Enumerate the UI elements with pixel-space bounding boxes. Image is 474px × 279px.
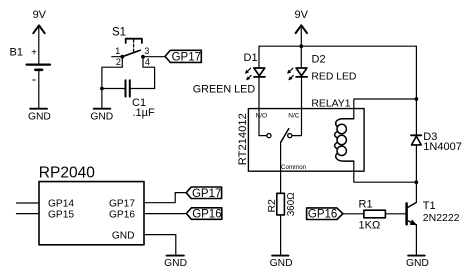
global label GP17 (RP2040) [186,187,221,200]
relay N/C contact [288,109,302,138]
wire 9V rail [259,45,416,47]
global label GP16 (RP2040) [186,208,221,221]
svg-text:Common: Common [281,164,307,171]
LED D2 [288,54,326,81]
wire common to R2 [280,143,282,194]
wire GP16 pin to flag [144,213,186,215]
svg-text:2: 2 [116,57,121,67]
svg-text:D2: D2 [312,54,326,66]
relay coil pin up [354,99,417,119]
wire R1 to base [385,213,405,215]
S1 arm [122,50,140,57]
svg-text:GND: GND [270,258,293,269]
wire battery to ground [38,71,40,108]
svg-text:R1: R1 [359,199,373,211]
wire D1 to relay N/O [258,78,260,109]
relay coil [335,119,354,161]
svg-text:360Ω: 360Ω [286,192,297,216]
svg-text:D1: D1 [244,52,258,64]
wire 9V rail down right side [415,46,417,135]
RP2040 module [17,165,145,245]
wire pin4 down-right [143,57,155,89]
svg-text:GP16: GP16 [192,209,221,221]
transistor T1 [407,200,460,225]
wire GND pin down [144,235,176,255]
svg-text:.1µF: .1µF [133,107,156,119]
svg-text:S1: S1 [112,27,126,39]
ground (battery) [28,109,51,123]
svg-text:GND: GND [112,230,135,241]
svg-text:2N2222: 2N2222 [423,212,460,224]
node coil top [415,97,419,101]
S1 linkage dashed [133,40,135,54]
wire D3 to collector node [415,145,417,203]
global label GP17 (switch) [165,50,201,63]
svg-text:3: 3 [144,46,149,56]
svg-text:+: + [31,48,37,59]
relay common arm [281,129,289,143]
wire C1 right plate to pin4 [130,88,155,90]
relay coil pin down [354,161,417,182]
ground (R2) [270,256,293,269]
wire pin3 to GP17 flag [143,56,165,58]
svg-text:GP17: GP17 [109,199,135,210]
node 9V rail junction [299,44,303,48]
svg-text:1: 1 [115,46,120,56]
ground (T1) [406,256,429,269]
svg-text:GND: GND [406,258,429,269]
wire D2 to relay N/C [301,78,303,109]
svg-text:GP16: GP16 [308,209,337,221]
svg-text:4: 4 [145,57,150,67]
wire rail to D1 [258,46,260,68]
wire pin2 down-left [102,57,122,89]
power flag 9V (battery) [33,9,47,33]
relay N/O contact [259,109,271,138]
svg-text:GP16: GP16 [109,209,135,220]
global label GP16 (base drive) [307,208,343,221]
pin GP14 stub [17,202,40,204]
svg-text:T1: T1 [423,200,436,212]
battery B1 [10,47,51,81]
svg-text:9V: 9V [294,9,308,21]
resistor R1 [359,199,386,232]
switch S1 [112,27,150,68]
wire emitter to ground [415,225,417,255]
svg-text:GP17: GP17 [172,51,201,63]
wire to C1 left plate [102,88,126,90]
power flag 9V (right) [294,9,308,33]
S1 contact dot right [141,55,145,59]
wire 9V down [300,27,302,46]
wire GP17 pin to flag [144,193,186,203]
wire 9V to battery [38,27,40,64]
svg-text:R2: R2 [266,199,278,213]
resistor R2 [266,192,297,216]
svg-text:GP17: GP17 [192,188,221,200]
wire GP16 to R1 [343,213,364,215]
svg-text:9V: 9V [33,9,47,21]
S1 actuator bracket [126,39,142,43]
svg-text:RED LED: RED LED [311,71,356,82]
svg-text:RELAY1: RELAY1 [311,98,350,109]
svg-text:GND: GND [28,112,51,123]
svg-text:GP14: GP14 [48,199,74,210]
wire rail to D2 [300,46,302,68]
wire R2 to ground [280,215,282,255]
ground (switch) [90,109,113,123]
node junction at C1 left [100,87,104,91]
svg-text:GND: GND [90,112,113,123]
svg-text:1KΩ: 1KΩ [359,220,381,232]
svg-text:N/C: N/C [288,112,300,119]
svg-text:GREEN LED: GREEN LED [193,84,256,96]
S1 pin 1 stub [112,56,123,58]
wire junction to ground [101,89,103,109]
pin GP15 stub [17,213,40,215]
svg-text:B1: B1 [10,47,23,59]
ground (RP2040) [164,256,187,269]
diode D3 [411,131,462,153]
svg-text:1N4007: 1N4007 [423,141,462,153]
svg-text:RT214012: RT214012 [237,113,249,165]
svg-text:N/O: N/O [256,112,268,119]
relay RELAY1 [237,98,364,171]
svg-text:GP15: GP15 [48,209,74,220]
capacitor C1 [126,80,156,119]
LED D1 [244,52,266,80]
svg-text:GND: GND [164,258,187,269]
node coil bottom [414,180,418,184]
S1 contact dot left [120,55,124,59]
svg-text:RP2040: RP2040 [39,165,95,182]
